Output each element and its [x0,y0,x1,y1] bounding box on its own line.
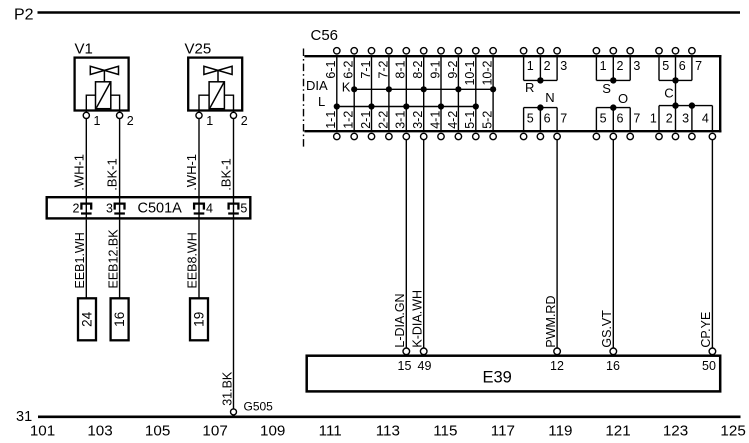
svg-text:50: 50 [702,359,716,373]
svg-text:111: 111 [319,422,342,439]
svg-text:7: 7 [633,112,640,126]
E39 pin 16 [606,348,620,373]
svg-text:EEB8.WH: EEB8.WH [186,232,200,288]
svg-text:V1: V1 [75,41,93,58]
C501A pin 3 [106,197,125,220]
svg-text:19: 19 [192,312,207,327]
C56 pin line 10-1 / 5-1 [463,48,479,140]
grid coordinate numbers [30,422,746,439]
svg-text:119: 119 [548,422,572,439]
svg-text:6-2: 6-2 [342,60,356,78]
svg-text:117: 117 [491,422,515,439]
E39 pin 12 [550,348,564,373]
svg-text:8-2: 8-2 [411,60,425,78]
svg-text:9-2: 9-2 [446,60,460,78]
svg-text:1: 1 [527,59,534,73]
svg-text:1: 1 [600,59,607,73]
svg-text:C: C [664,85,673,100]
svg-text:103: 103 [87,422,112,439]
svg-text:3-2: 3-2 [411,111,425,129]
svg-text:6: 6 [544,112,551,126]
node K bus (diagnosis K-line) [342,80,496,95]
wire C501A to terminal (EEB12.BK) [119,220,121,298]
svg-text:2: 2 [544,59,551,73]
svg-text:115: 115 [433,422,457,439]
svg-text:EEB12.BK: EEB12.BK [106,229,120,289]
C56 housing bottom border [304,130,721,132]
svg-text:125: 125 [720,422,745,439]
svg-text:101: 101 [30,422,55,439]
svg-text:3: 3 [106,201,113,215]
svg-text:105: 105 [145,422,170,439]
wire C501A to terminal (EEB1.WH) [85,220,87,298]
C56 housing top border [304,55,721,57]
svg-text:5-2: 5-2 [481,111,495,129]
svg-text:16: 16 [112,312,127,327]
C56 group R pins 1 2 3 [520,48,567,95]
svg-text:5: 5 [600,112,607,126]
svg-text:3-1: 3-1 [394,111,408,129]
ground point G505 [231,409,237,415]
svg-text:8-1: 8-1 [394,60,408,78]
svg-text:.WH-1: .WH-1 [184,154,199,191]
C56 housing right border [719,55,721,132]
E39 pin 50 [702,348,716,373]
svg-text:G505: G505 [244,400,274,414]
node L bus (diagnosis L-line) [318,94,479,109]
C56 pin line 7-2 / 2-2 [376,48,392,140]
svg-text:R: R [525,80,534,95]
svg-text:CP.YE: CP.YE [699,312,713,348]
svg-text:V25: V25 [185,41,212,58]
svg-text:DIA: DIA [306,78,328,93]
svg-text:PWM.RD: PWM.RD [544,296,558,348]
svg-text:10-1: 10-1 [463,60,477,85]
svg-text:.BK-1: .BK-1 [219,158,234,191]
svg-text:.BK-1: .BK-1 [105,158,120,191]
C56 group O pins 5 6 7 [593,91,640,140]
svg-text:K-DIA.WH: K-DIA.WH [411,290,425,348]
wire C56 to E39 (GS.VT) [612,140,614,349]
svg-text:1: 1 [650,112,657,126]
svg-text:24: 24 [80,311,95,327]
svg-text:1: 1 [94,114,101,128]
svg-text:5: 5 [240,201,247,215]
wire P2 top rule [38,11,741,13]
svg-text:2: 2 [241,114,248,128]
terminal box 16 [111,298,129,340]
svg-text:16: 16 [606,359,620,373]
C56 group N pins 5 6 7 [520,90,567,140]
C56 group C pins 1 2 3 4 (bottom) [650,102,716,139]
C56 group S pins 1 2 3 [593,48,640,96]
C56 group C pins 5 6 7 (top) [656,48,702,101]
svg-text:2-1: 2-1 [359,111,373,129]
svg-text:107: 107 [202,422,227,439]
svg-text:5-1: 5-1 [463,111,477,129]
C56 boundary chain line [303,49,305,149]
svg-text:L-DIA.GN: L-DIA.GN [393,293,407,347]
connector C501A [47,197,251,218]
svg-text:C501A: C501A [138,201,183,217]
svg-text:2: 2 [127,114,134,128]
svg-text:EEB1.WH: EEB1.WH [73,232,87,288]
svg-text:6: 6 [679,59,686,73]
wire C56 to E39 (K-DIA.WH) [423,140,425,349]
svg-text:5: 5 [527,112,534,126]
C501A pin 5 [228,197,247,220]
svg-text:N: N [545,90,554,105]
svg-text:10-2: 10-2 [481,60,495,85]
svg-text:31.BK: 31.BK [220,371,234,406]
C56 pin line 8-2 / 3-2 [411,48,427,140]
svg-text:2: 2 [666,112,673,126]
E39 pin 49 [418,348,432,373]
wire valve pin to C501A (.WH-1 at x=86) [85,119,87,198]
C501A pin 4 [194,197,213,220]
C56 pin line 7-1 / 2-1 [359,48,375,140]
svg-text:12: 12 [550,359,564,373]
svg-text:.WH-1: .WH-1 [71,154,86,191]
wire C56 to E39 (CP.YE) [711,140,713,349]
svg-text:L: L [318,94,325,109]
svg-text:2-2: 2-2 [376,111,390,129]
svg-text:K: K [342,80,351,95]
svg-text:49: 49 [418,359,432,373]
wire C501A pin5 to ground G505 (31.BK) [233,220,235,409]
C56 pin line 9-1 / 4-1 [428,48,444,140]
svg-text:3: 3 [560,59,567,73]
wire valve pin to C501A (.BK-1 at x=120) [119,119,121,198]
svg-text:2: 2 [73,201,80,215]
svg-text:6: 6 [617,112,624,126]
C56 pin line 9-2 / 4-2 [446,48,462,140]
solenoid valve V1 [75,41,134,129]
svg-text:O: O [618,91,628,106]
svg-text:6-1: 6-1 [324,60,338,78]
solenoid valve V25 [185,41,248,129]
terminal box 19 [190,298,208,340]
svg-text:9-1: 9-1 [428,60,442,78]
wire valve pin to C501A (.BK-1 at x=234) [233,119,235,198]
svg-text:4: 4 [702,112,709,126]
terminal box 24 [78,298,96,340]
C56 pin line 6-2 / 1-2 [342,48,358,140]
wire valve pin to C501A (.WH-1 at x=199) [198,119,200,198]
svg-text:1-2: 1-2 [342,111,356,129]
svg-text:3: 3 [682,112,689,126]
svg-text:109: 109 [260,422,285,439]
E39 pin 15 [398,348,412,373]
svg-text:121: 121 [605,422,630,439]
wire C56 to E39 (L-DIA.GN) [405,140,407,349]
wire C501A to terminal (EEB8.WH) [198,220,200,298]
svg-text:E39: E39 [483,368,512,386]
C56 pin line 8-1 / 3-1 [394,48,410,140]
svg-text:C56: C56 [311,27,339,44]
C56 pin line 10-2 / 5-2 [481,48,497,140]
svg-text:4-1: 4-1 [428,111,442,129]
svg-text:4-2: 4-2 [446,111,460,129]
svg-text:7: 7 [695,59,702,73]
svg-text:7-1: 7-1 [359,60,373,78]
svg-text:7: 7 [560,112,567,126]
svg-text:3: 3 [633,59,640,73]
svg-text:1-1: 1-1 [324,111,338,129]
control unit E39 [307,356,721,392]
svg-text:15: 15 [398,359,412,373]
svg-text:7-2: 7-2 [376,60,390,78]
svg-text:4: 4 [206,201,213,215]
C501A pin 2 [73,197,92,220]
svg-text:113: 113 [376,422,400,439]
C56 group C link wire [675,80,677,105]
svg-text:1: 1 [206,114,213,128]
svg-text:5: 5 [662,59,669,73]
svg-text:S: S [602,81,611,96]
svg-text:2: 2 [617,59,624,73]
C56 pin line 6-1 / 1-1 [324,48,340,140]
svg-text:123: 123 [663,422,688,439]
wire C56 to E39 (PWM.RD) [556,140,558,349]
svg-text:P2: P2 [14,7,34,24]
svg-text:GS.VT: GS.VT [600,310,614,348]
